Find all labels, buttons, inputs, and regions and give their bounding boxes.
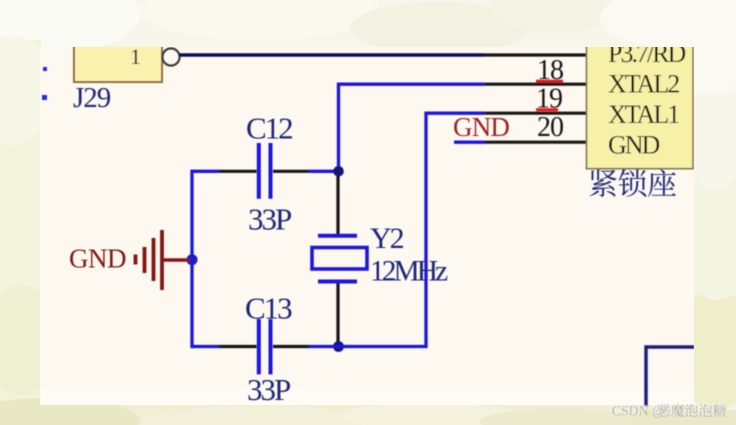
label 紧锁座 [590,169,676,197]
svg-text:XTAL2: XTAL2 [608,70,679,99]
wire C12 left to GND rail [191,170,220,173]
capacitor C13 [219,319,309,374]
IC U1 socket body [587,40,694,169]
junction node GND rail [187,254,198,265]
wire net bottom-right L [646,347,694,406]
junction node XTAL2/C12/Y2 [333,166,344,177]
wire C13 left to GND rail [191,345,220,348]
red underline pin 18 [536,80,563,83]
pin 18 XTAL2 black pin line [485,83,587,86]
svg-text:20: 20 [537,112,563,143]
svg-text:Y2: Y2 [370,222,404,255]
pin 19 XTAL1 black pin line [485,112,587,115]
pin P3.7/RD of U1 [484,53,587,56]
wire XTAL2 to C12 junction [339,84,486,171]
crystal Y2 [312,176,367,342]
wire C13 right to junction [309,345,345,348]
pin 1 open circle [163,49,180,66]
connector J29 [74,38,162,82]
svg-text:C12: C12 [246,110,292,145]
svg-text:12MHz: 12MHz [370,256,448,288]
wire net P3.7 from J29 pin1 to IC [179,53,484,56]
wire GND rail vertical [190,170,193,348]
power ground symbol [136,230,191,290]
svg-text:CSDN @: CSDN @ [612,403,665,418]
junction node XTAL1/C13/Y2 [333,341,344,352]
svg-text:33P: 33P [248,202,291,237]
watermark CSDN [611,402,726,418]
svg-text:GND: GND [69,244,126,274]
svg-text:XTAL1: XTAL1 [608,100,679,129]
wire XTAL1 down to C13 junction [344,113,485,346]
wire stub GND pin 20 [454,141,485,144]
capacitor C12 [219,143,309,199]
svg-text:1: 1 [130,44,141,69]
svg-text:GND: GND [608,131,660,160]
wire C12 right to junction [309,170,338,173]
svg-text:GND: GND [453,112,509,142]
svg-text:33P: 33P [247,372,290,407]
svg-text:C13: C13 [245,291,292,326]
red underline pin 19 [536,108,558,111]
pin 20 GND black pin line [485,141,587,144]
svg-text:J29: J29 [73,82,111,114]
